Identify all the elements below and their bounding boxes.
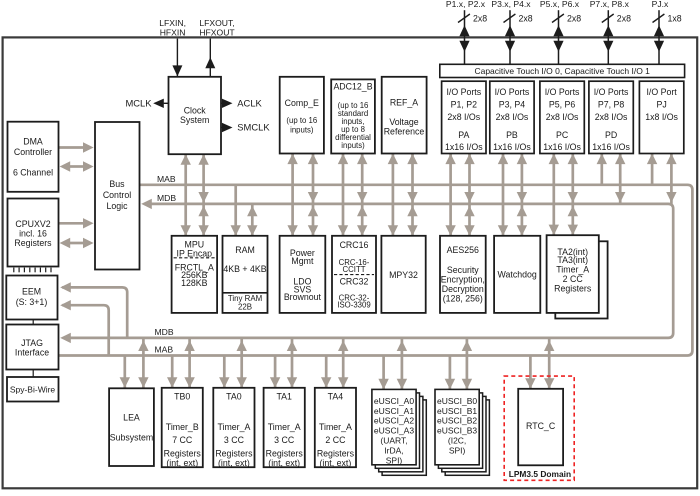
block Clock System xyxy=(169,77,222,154)
block AES256 xyxy=(440,236,486,313)
svg-text:EEM: EEM xyxy=(22,286,41,296)
wire MDB to RTC_C xyxy=(544,338,554,389)
svg-text:1x8 I/Os: 1x8 I/Os xyxy=(645,112,678,122)
block I/O Port P7/P8 PD xyxy=(589,81,633,153)
wire Port PB to Watchdog (MAB column) xyxy=(498,154,508,236)
pin group PJ.x xyxy=(652,0,682,64)
svg-text:Control: Control xyxy=(103,190,131,200)
svg-text:2 CC: 2 CC xyxy=(325,435,346,445)
svg-text:PC: PC xyxy=(556,130,569,140)
svg-text:Reference: Reference xyxy=(384,127,425,137)
block TA1 Timer_A xyxy=(264,388,305,468)
svg-text:TA4: TA4 xyxy=(328,391,344,401)
svg-text:(UART,: (UART, xyxy=(380,436,407,446)
pin LFXOUT, HFXOUT xyxy=(199,18,235,77)
svg-text:inputs): inputs) xyxy=(341,141,365,150)
svg-text:(128, 256): (128, 256) xyxy=(443,293,483,303)
svg-text:HFXOUT: HFXOUT xyxy=(199,27,235,37)
block Bus Control Logic xyxy=(95,122,140,270)
svg-text:Comp_E: Comp_E xyxy=(285,98,319,108)
svg-text:PD: PD xyxy=(605,130,617,140)
svg-text:Timer_A: Timer_A xyxy=(268,422,301,432)
wire Clock to MPU (MDB column) xyxy=(198,154,208,236)
wire MDB to TA0 xyxy=(237,338,247,388)
wire REF_A to MPY32 (MDB column) xyxy=(407,154,417,236)
svg-text:eUSCI_B1: eUSCI_B1 xyxy=(437,406,477,416)
pin group P7.x, P8.x xyxy=(590,0,631,64)
wire CPU to EEM comb xyxy=(14,268,51,273)
svg-text:2x8 I/Os: 2x8 I/Os xyxy=(496,112,529,122)
wire MDB to TB0 xyxy=(184,338,194,388)
svg-text:TB0: TB0 xyxy=(174,391,190,401)
wire Port PA to AES256 (MDB column) xyxy=(464,154,474,236)
svg-text:1x16 I/Os: 1x16 I/Os xyxy=(445,142,483,152)
svg-text:MAB: MAB xyxy=(157,174,176,184)
svg-text:1x16 I/Os: 1x16 I/Os xyxy=(592,142,630,152)
block MPU / FRCTL_A FRAM xyxy=(172,236,218,313)
svg-text:HFXIN: HFXIN xyxy=(160,27,186,37)
node ACLK xyxy=(221,97,263,108)
svg-text:Timer_A: Timer_A xyxy=(556,265,589,275)
pin group P3.x, P4.x xyxy=(491,0,532,64)
wire DMA to Bus Control (bidirectional) xyxy=(60,161,94,171)
svg-text:RTC_C: RTC_C xyxy=(526,421,556,431)
svg-text:eUSCI_A1: eUSCI_A1 xyxy=(374,406,414,416)
bus MAB xyxy=(59,185,693,356)
wire Port PB to Watchdog (MDB column) xyxy=(517,154,527,236)
bus MDB xyxy=(60,199,673,343)
wire Port PJ to MDB xyxy=(666,154,676,204)
svg-text:eUSCI_B0: eUSCI_B0 xyxy=(437,396,477,406)
svg-text:P3, P4: P3, P4 xyxy=(499,100,526,110)
svg-text:I/O Ports: I/O Ports xyxy=(446,87,481,97)
svg-text:ACLK: ACLK xyxy=(237,97,262,108)
svg-text:(int, ext): (int, ext) xyxy=(320,458,352,468)
svg-text:CRC16: CRC16 xyxy=(340,240,369,250)
block CPUXV2 xyxy=(8,199,59,267)
svg-text:TA1: TA1 xyxy=(276,391,292,401)
svg-text:eUSCI_A2: eUSCI_A2 xyxy=(374,416,414,426)
block Spy-Bi-Wire xyxy=(7,377,59,402)
wire MDB to eUSCI_A xyxy=(397,338,407,390)
block Power Mgmt xyxy=(280,236,326,313)
wire MDB to LEA xyxy=(138,338,148,388)
svg-text:(up to 16: (up to 16 xyxy=(286,116,317,125)
svg-text:TA3(int): TA3(int) xyxy=(557,255,588,265)
svg-text:IrDA,: IrDA, xyxy=(384,445,403,455)
wire MDB to eUSCI_B xyxy=(462,338,472,390)
svg-text:SPI): SPI) xyxy=(449,445,466,455)
svg-text:Spy-Bi-Wire: Spy-Bi-Wire xyxy=(10,385,56,395)
wire Comp_E to Power Mgmt (MAB column) xyxy=(287,154,297,236)
svg-text:2x8 I/Os: 2x8 I/Os xyxy=(546,112,579,122)
wire MDB to TA4 xyxy=(338,338,348,388)
svg-text:LPM3.5 Domain: LPM3.5 Domain xyxy=(509,469,571,479)
svg-text:MPY32: MPY32 xyxy=(389,270,418,280)
svg-text:(int, ext): (int, ext) xyxy=(218,458,250,468)
block ADC12_B xyxy=(331,79,375,153)
block I/O Port PJ xyxy=(639,81,683,153)
wire Port PD to MDB xyxy=(615,154,625,204)
wire Port PJ to MAB xyxy=(647,154,657,185)
block eUSCI_A stack xyxy=(372,389,426,475)
svg-text:IP Encap: IP Encap xyxy=(177,248,213,258)
wire Port PD to MAB xyxy=(597,154,607,185)
svg-text:(S: 3+1): (S: 3+1) xyxy=(16,297,48,307)
svg-text:System: System xyxy=(180,115,209,125)
svg-text:PJ.x: PJ.x xyxy=(652,0,669,9)
svg-text:2x8: 2x8 xyxy=(473,14,487,24)
svg-text:2x8 I/Os: 2x8 I/Os xyxy=(595,112,628,122)
LPM3.5 domain boundary xyxy=(504,376,574,480)
wire CPU to Bus Control (bidirectional) xyxy=(60,238,94,248)
wire ADC12_B to CRC16 (MAB column) xyxy=(338,154,348,236)
block LEA Subsystem xyxy=(109,388,154,466)
svg-text:SMCLK: SMCLK xyxy=(237,121,270,132)
wire Comp_E to Power Mgmt (MDB column) xyxy=(308,154,318,236)
svg-text:incl. 16: incl. 16 xyxy=(19,228,47,238)
svg-text:Registers: Registers xyxy=(215,448,253,458)
wire MAB to TA0 xyxy=(219,356,229,388)
wire Port PC to TA2 (MAB column) xyxy=(549,154,559,236)
svg-text:TA0: TA0 xyxy=(226,391,242,401)
block RAM xyxy=(223,236,268,313)
svg-text:P7, P8: P7, P8 xyxy=(598,100,625,110)
node SMCLK xyxy=(221,121,270,132)
svg-text:1x16 I/Os: 1x16 I/Os xyxy=(493,142,531,152)
svg-text:Security: Security xyxy=(447,265,479,275)
wire MDB to TA1 xyxy=(287,338,297,388)
wire MAB to LEA xyxy=(120,356,130,388)
svg-text:6 Channel: 6 Channel xyxy=(13,168,53,178)
svg-text:Watchdog: Watchdog xyxy=(498,270,537,280)
svg-text:JTAG: JTAG xyxy=(21,338,43,348)
svg-text:4KB + 4KB: 4KB + 4KB xyxy=(223,264,266,274)
svg-text:MDB: MDB xyxy=(155,327,174,337)
block MPY32 xyxy=(381,236,425,313)
wire MAB to TB0 xyxy=(167,356,177,388)
svg-text:CCITT: CCITT xyxy=(343,265,366,274)
block I/O Port P3/P4 PB xyxy=(490,81,534,153)
svg-text:SPI): SPI) xyxy=(386,455,403,465)
wire JTAG to Spy-Bi-Wire link xyxy=(32,370,34,378)
svg-text:1x16 I/Os: 1x16 I/Os xyxy=(543,142,581,152)
svg-text:P7.x, P8.x: P7.x, P8.x xyxy=(590,0,630,9)
svg-text:Timer_A: Timer_A xyxy=(217,422,250,432)
svg-text:P3.x, P4.x: P3.x, P4.x xyxy=(491,0,531,9)
wire REF_A to MPY32 (MAB column) xyxy=(388,154,398,236)
block I/O Port P5/P6 PC xyxy=(540,81,584,153)
svg-text:22B: 22B xyxy=(238,302,252,311)
svg-text:Brownout: Brownout xyxy=(284,292,322,302)
svg-text:I/O Ports: I/O Ports xyxy=(594,87,629,97)
wire EEM to JTAG link xyxy=(32,320,34,325)
svg-text:(int, ext): (int, ext) xyxy=(268,458,300,468)
svg-text:Voltage: Voltage xyxy=(389,117,418,127)
svg-text:Timer_B: Timer_B xyxy=(166,422,199,432)
svg-text:I/O Port: I/O Port xyxy=(646,87,677,97)
svg-text:AES256: AES256 xyxy=(447,245,479,255)
svg-text:Encryption,: Encryption, xyxy=(441,275,485,285)
block TA0 Timer_A xyxy=(213,388,254,468)
block Watchdog xyxy=(494,236,540,313)
svg-text:Logic: Logic xyxy=(106,201,128,211)
block RTC_C xyxy=(518,389,563,466)
svg-text:Subsystem: Subsystem xyxy=(110,432,154,442)
svg-text:CRC32: CRC32 xyxy=(340,276,369,286)
svg-text:2x8: 2x8 xyxy=(617,14,631,24)
svg-text:7 CC: 7 CC xyxy=(172,435,193,445)
wire MAB to RAM xyxy=(231,185,241,236)
svg-text:PJ: PJ xyxy=(656,100,666,110)
svg-text:Registers: Registers xyxy=(266,448,304,458)
svg-text:3 CC: 3 CC xyxy=(224,435,245,445)
svg-text:MCLK: MCLK xyxy=(125,97,152,108)
wire MDB to EEM xyxy=(60,282,127,338)
svg-text:eUSCI_A0: eUSCI_A0 xyxy=(374,396,414,406)
svg-text:P1, P2: P1, P2 xyxy=(451,100,478,110)
block REF_A Voltage Reference xyxy=(382,77,427,154)
wire MAB to RTC_C xyxy=(525,356,535,389)
svg-text:Mgmt: Mgmt xyxy=(291,256,314,266)
svg-text:eUSCI_B3: eUSCI_B3 xyxy=(437,426,477,436)
svg-text:Clock: Clock xyxy=(184,105,207,115)
wire MDB to RAM xyxy=(247,204,257,236)
wire MAB to EEM xyxy=(60,300,108,356)
block eUSCI_B stack xyxy=(435,389,489,475)
svg-text:Interface: Interface xyxy=(15,348,49,358)
wire DMA to Bus Control (read) xyxy=(59,142,94,152)
pin LFXIN, HFXIN xyxy=(159,18,186,77)
pin group P1.x, P2.x xyxy=(446,0,487,64)
block CRC16 / CRC32 xyxy=(332,236,376,313)
svg-text:Registers: Registers xyxy=(164,448,202,458)
wire MAB to TA1 xyxy=(270,356,280,388)
svg-text:Controller: Controller xyxy=(14,147,52,157)
svg-text:1x8: 1x8 xyxy=(668,14,682,24)
svg-text:Registers: Registers xyxy=(14,238,52,248)
svg-text:MDB: MDB xyxy=(157,193,176,203)
node MCLK xyxy=(125,97,168,108)
block TA2 TA3 Timer_A (stacked) xyxy=(547,235,608,318)
svg-text:Registers: Registers xyxy=(317,448,355,458)
wire Port PC to TA2 (MDB column) xyxy=(568,154,578,236)
svg-text:eUSCI_B2: eUSCI_B2 xyxy=(437,416,477,426)
wire MAB to eUSCI_A xyxy=(378,356,388,390)
svg-text:3 CC: 3 CC xyxy=(274,435,295,445)
svg-text:Timer_A: Timer_A xyxy=(319,422,352,432)
block JTAG Interface xyxy=(6,325,58,370)
block Comp_E xyxy=(280,77,324,154)
svg-text:LEA: LEA xyxy=(123,413,140,423)
wire CPU to Bus Control (read) xyxy=(59,218,94,228)
svg-text:Capacitive Touch I/O 0, Capaci: Capacitive Touch I/O 0, Capacitive Touch… xyxy=(474,66,650,76)
svg-text:MAB: MAB xyxy=(155,344,174,354)
svg-text:P5.x, P6.x: P5.x, P6.x xyxy=(540,0,580,9)
svg-text:RAM: RAM xyxy=(235,245,255,255)
block TA4 Timer_A xyxy=(315,388,356,468)
svg-text:PA: PA xyxy=(458,130,469,140)
svg-text:inputs): inputs) xyxy=(290,125,314,134)
svg-text:ISO-3309: ISO-3309 xyxy=(337,301,370,310)
svg-text:P1.x, P2.x: P1.x, P2.x xyxy=(446,0,486,9)
block Capacitive Touch I/O banner xyxy=(440,64,685,77)
svg-text:ADC12_B: ADC12_B xyxy=(333,82,372,92)
svg-text:I/O Ports: I/O Ports xyxy=(495,87,530,97)
block DMA Controller xyxy=(8,122,59,192)
wire ADC12_B to CRC16 (MDB column) xyxy=(357,154,367,236)
svg-text:(int, ext): (int, ext) xyxy=(166,458,198,468)
wire MAB to eUSCI_B xyxy=(445,356,455,390)
wire Clock to MPU (MAB column) xyxy=(181,154,191,236)
svg-text:PB: PB xyxy=(506,130,518,140)
wire MAB to TA4 xyxy=(321,356,331,388)
pin group P5.x, P6.x xyxy=(540,0,581,64)
block TB0 Timer_B xyxy=(162,388,203,468)
svg-text:2x8 I/Os: 2x8 I/Os xyxy=(447,112,480,122)
svg-text:(I2C,: (I2C, xyxy=(448,436,466,446)
svg-text:Bus: Bus xyxy=(109,179,125,189)
svg-text:P5, P6: P5, P6 xyxy=(549,100,576,110)
svg-text:2x8: 2x8 xyxy=(567,14,581,24)
svg-text:Registers: Registers xyxy=(554,284,592,294)
block EEM xyxy=(6,276,57,320)
block I/O Port P1/P2 PA xyxy=(442,81,486,153)
svg-text:DMA: DMA xyxy=(23,136,43,146)
svg-text:2x8: 2x8 xyxy=(519,14,533,24)
svg-text:eUSCI_A3: eUSCI_A3 xyxy=(374,426,414,436)
wire Port PA to AES256 (MAB column) xyxy=(445,154,455,236)
svg-text:REF_A: REF_A xyxy=(390,97,418,107)
svg-text:I/O Ports: I/O Ports xyxy=(545,87,580,97)
svg-text:128KB: 128KB xyxy=(181,278,208,288)
